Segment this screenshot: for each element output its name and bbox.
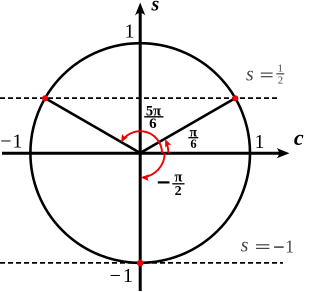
label pi/6	[188, 124, 198, 151]
label s=1/2	[246, 62, 284, 86]
dashed line s=-1	[0, 262, 283, 264]
svg-text:1: 1	[125, 21, 135, 43]
radius to 5pi/6	[45, 98, 140, 153]
label -pi/2	[158, 170, 185, 199]
svg-text:6: 6	[149, 116, 157, 132]
c axis	[2, 148, 290, 158]
svg-text:6: 6	[190, 137, 196, 151]
red arc angle 5pi/6	[118, 131, 162, 153]
svg-text:1: 1	[285, 237, 294, 257]
red arc angle -pi/2	[141, 153, 165, 181]
svg-text:−1: −1	[0, 131, 23, 153]
red point (sqrt3/2, 1/2)	[232, 95, 238, 101]
radius to pi/6	[140, 98, 235, 153]
dashed line s=1/2	[0, 97, 279, 99]
svg-text:c: c	[294, 125, 304, 150]
red point (0,-1)	[137, 260, 144, 267]
s axis	[135, 3, 145, 292]
unit circle	[30, 43, 250, 263]
svg-text:1: 1	[255, 131, 265, 153]
svg-text:s: s	[241, 236, 249, 257]
red point (-sqrt3/2, 1/2)	[42, 95, 48, 101]
label s=-1	[241, 236, 294, 257]
svg-text:s: s	[151, 0, 160, 15]
label 5pi/6	[144, 103, 163, 131]
svg-text:2: 2	[175, 184, 182, 199]
svg-text:1: 1	[277, 62, 282, 74]
svg-text:2: 2	[278, 74, 283, 86]
svg-text:s: s	[246, 65, 254, 86]
red arc angle pi/6	[162, 138, 171, 153]
svg-text:−1: −1	[110, 265, 135, 287]
